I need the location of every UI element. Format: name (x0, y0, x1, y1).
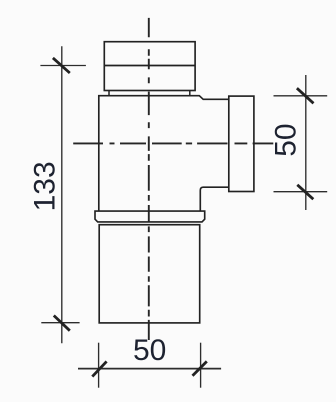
dimension 133 label (29, 161, 62, 211)
right dimension 50 line (305, 75, 307, 210)
bottom dimension 50 line (78, 368, 221, 370)
neck ledge left (108, 91, 110, 96)
right dimension 50 top crossbar (274, 95, 328, 97)
right flange (229, 96, 254, 191)
right dimension 50 top tick slash (297, 88, 314, 103)
right dimension 50 bottom tick slash (297, 185, 313, 199)
dimension 133 line (61, 46, 63, 343)
bottom dimension 50 left extension (98, 343, 100, 388)
dimension 133 top crossbar (40, 65, 86, 67)
dimension 133 top tick slash (53, 58, 70, 73)
dimension 133 bottom tick slash (54, 316, 70, 331)
bottom collar (95, 211, 205, 222)
neck ledge right (189, 91, 191, 96)
body outline (99, 96, 229, 211)
horizontal centerline (73, 142, 273, 144)
svg-text:50: 50 (133, 334, 166, 367)
bottom dimension 50 label (133, 334, 166, 367)
svg-text:133: 133 (29, 161, 62, 211)
svg-text:50: 50 (270, 123, 303, 156)
right dimension 50 label (270, 123, 303, 156)
lower pipe (99, 225, 200, 323)
bottom dimension 50 right tick slash (193, 361, 207, 375)
socket divider line (104, 65, 195, 67)
dimension 133 bottom crossbar (41, 322, 79, 324)
right dimension 50 bottom crossbar (274, 191, 328, 193)
top socket hub (104, 42, 195, 91)
vertical centerline (148, 18, 150, 340)
bottom dimension 50 right extension (200, 343, 202, 388)
bottom dimension 50 left tick slash (92, 361, 106, 376)
